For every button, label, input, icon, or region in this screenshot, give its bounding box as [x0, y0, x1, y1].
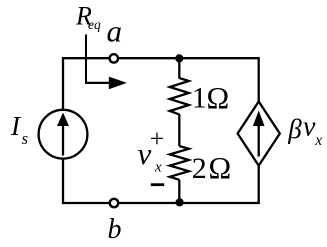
label beta vx [287, 112, 322, 150]
terminal b [110, 199, 118, 207]
svg-text:+: + [150, 124, 164, 153]
svg-text:v: v [303, 112, 316, 143]
wire middle upper [178, 58, 180, 78]
svg-text:s: s [22, 129, 29, 148]
wire left upper [62, 57, 64, 109]
svg-text:Ω: Ω [207, 81, 230, 115]
svg-text:2: 2 [192, 152, 207, 185]
probe arrow Req [85, 35, 127, 90]
label minus [151, 183, 164, 186]
label Is [10, 111, 29, 148]
wire top [63, 57, 259, 59]
resistor R1 1ohm [170, 78, 189, 114]
wire middle lower [178, 180, 180, 203]
label vx [138, 136, 163, 176]
label b [108, 214, 122, 245]
wire middle between resistors [178, 114, 180, 146]
svg-text:x: x [154, 159, 162, 175]
wire right upper [258, 57, 260, 102]
svg-text:v: v [138, 136, 152, 171]
svg-text:1: 1 [192, 82, 207, 115]
svg-text:β: β [287, 114, 302, 144]
wire bottom [63, 202, 259, 204]
resistor R2 2ohm [170, 146, 189, 180]
svg-text:eq: eq [88, 17, 101, 32]
svg-text:Ω: Ω [209, 151, 232, 185]
svg-text:I: I [10, 111, 22, 141]
label 1 ohm [192, 81, 229, 115]
label plus [150, 124, 164, 153]
label 2 ohm [192, 151, 231, 185]
wire left lower [62, 159, 64, 204]
dependent source U1 diamond [238, 102, 280, 166]
svg-text:b: b [108, 214, 122, 245]
node dot top [175, 54, 183, 62]
terminal a [110, 54, 118, 62]
wire right lower [258, 165, 260, 205]
svg-text:x: x [314, 132, 322, 149]
svg-text:a: a [107, 14, 123, 49]
current source Is [39, 110, 88, 159]
label Req [75, 1, 101, 31]
node dot bottom [176, 198, 184, 206]
label a [107, 14, 123, 49]
